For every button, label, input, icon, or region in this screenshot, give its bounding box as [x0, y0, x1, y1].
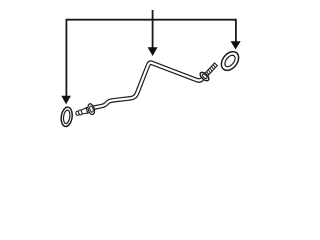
leader: horizontal line: [66, 19, 236, 21]
arrowhead left: [61, 96, 71, 105]
left fitting (nozzle + collar): [74, 103, 95, 119]
right fitting (collar + threaded stud): [199, 61, 220, 83]
leader: right vertical drop: [235, 19, 237, 43]
pipe (tube body): [94, 63, 203, 108]
right O-ring: [218, 48, 242, 73]
left O-ring: [60, 106, 73, 127]
leader: center vertical stub: [152, 10, 154, 49]
leader: left vertical drop: [65, 19, 67, 97]
arrowhead center: [148, 47, 158, 56]
arrowhead right: [231, 41, 241, 49]
